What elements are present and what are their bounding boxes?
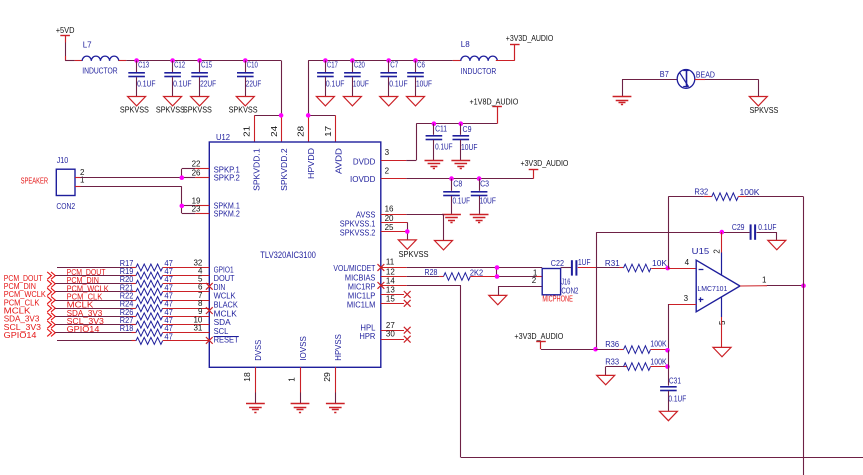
no-connect X row6 bbox=[206, 307, 213, 314]
svg-text:RESET: RESET bbox=[214, 336, 239, 345]
svg-text:5: 5 bbox=[718, 320, 727, 325]
resistor R32 bbox=[668, 197, 670, 268]
svg-text:AVDD: AVDD bbox=[334, 148, 344, 174]
svg-text:MIC1RP: MIC1RP bbox=[348, 283, 376, 292]
RESET overbar bbox=[214, 336, 239, 338]
svg-text:47: 47 bbox=[164, 332, 173, 341]
svg-text:18: 18 bbox=[243, 372, 252, 382]
svg-text:GPIO14: GPIO14 bbox=[67, 324, 100, 334]
power +1V8D_AUDIO bbox=[497, 107, 499, 124]
resistor unlabeled row10 bbox=[57, 340, 132, 342]
port chevron PCM_WCLK bbox=[47, 288, 51, 295]
svg-text:C12: C12 bbox=[174, 61, 185, 70]
svg-text:C11: C11 bbox=[435, 125, 447, 134]
svg-text:0.1UF: 0.1UF bbox=[453, 197, 471, 206]
svg-text:DOUT: DOUT bbox=[214, 274, 235, 283]
svg-text:1: 1 bbox=[762, 276, 767, 285]
svg-text:1: 1 bbox=[288, 377, 297, 382]
svg-text:SDA: SDA bbox=[214, 318, 232, 327]
svg-text:0.1UF: 0.1UF bbox=[758, 223, 776, 232]
capacitor C7 bbox=[386, 58, 391, 63]
svg-text:30: 30 bbox=[386, 329, 395, 338]
svg-text:L8: L8 bbox=[461, 40, 470, 49]
capacitor C8 bbox=[449, 176, 454, 181]
resistor R33 bbox=[606, 366, 624, 368]
ground earth C8 bbox=[442, 214, 461, 216]
pin stub HPVSS bbox=[335, 367, 337, 392]
ground SPKVSS C10 bbox=[236, 97, 254, 106]
svg-text:BEAD: BEAD bbox=[696, 70, 715, 79]
svg-text:R33: R33 bbox=[605, 358, 619, 367]
wire SPKM tee bbox=[181, 187, 183, 214]
resistor R17 bbox=[57, 267, 132, 269]
no-connect X row10 bbox=[206, 337, 213, 344]
junction op-amp V+ C29 bbox=[720, 230, 725, 235]
svg-text:C3: C3 bbox=[480, 180, 489, 189]
svg-text:WCLK: WCLK bbox=[214, 292, 237, 301]
wire 3V3 branch vertical bbox=[596, 232, 598, 349]
svg-text:25: 25 bbox=[385, 223, 394, 232]
junction R31 out bbox=[665, 266, 670, 271]
svg-text:B7: B7 bbox=[660, 70, 669, 79]
pin op-amp 5 bbox=[721, 297, 723, 317]
ground earth IOVSS bbox=[291, 403, 310, 405]
svg-text:29: 29 bbox=[323, 372, 332, 382]
svg-text:SPKVSS: SPKVSS bbox=[156, 105, 185, 114]
wire C22 to R31 bbox=[578, 267, 597, 269]
svg-text:SPKVSS: SPKVSS bbox=[229, 105, 258, 114]
svg-text:+5VD: +5VD bbox=[56, 25, 75, 35]
ground earth DVSS bbox=[246, 403, 265, 405]
port chevron SCL_3V3 bbox=[47, 321, 51, 328]
wire MICDET to mic bbox=[407, 267, 543, 269]
svg-text:DIN: DIN bbox=[214, 283, 226, 292]
svg-text:INDUCTOR: INDUCTOR bbox=[461, 67, 497, 76]
port chevron PCM_DIN bbox=[47, 280, 51, 287]
wire R33 to ground bbox=[605, 367, 607, 376]
ground earth bead left bbox=[613, 96, 632, 98]
wire SPKP tee bbox=[181, 169, 183, 178]
svg-text:2: 2 bbox=[713, 249, 722, 254]
port chevron GPIO14 bbox=[47, 329, 51, 336]
svg-text:U15: U15 bbox=[692, 247, 710, 256]
svg-text:20: 20 bbox=[385, 214, 394, 223]
svg-text:15: 15 bbox=[386, 294, 395, 303]
svg-text:SPKVSS: SPKVSS bbox=[399, 250, 429, 259]
svg-text:CON2: CON2 bbox=[56, 202, 75, 211]
pin op-amp 2 bbox=[721, 232, 723, 252]
wire rail drop to pin 24 bbox=[281, 61, 283, 116]
wire bottom loop bbox=[461, 457, 863, 459]
wire tee to pin 21 bbox=[254, 115, 281, 117]
power +3V3D_AUDIO top bbox=[514, 45, 516, 61]
ground SPKVSS bead bbox=[749, 97, 767, 106]
ground earth HPVSS bbox=[326, 403, 345, 405]
junction micdet bottom bbox=[495, 274, 500, 279]
svg-text:C31: C31 bbox=[669, 376, 682, 385]
svg-text:VOL/MICDET: VOL/MICDET bbox=[333, 264, 375, 273]
svg-text:J10: J10 bbox=[57, 156, 69, 165]
svg-text:MICPHONE: MICPHONE bbox=[542, 294, 573, 303]
wire pin3 to divider bbox=[668, 304, 670, 350]
svg-text:U12: U12 bbox=[216, 133, 231, 142]
svg-text:100K: 100K bbox=[740, 188, 761, 197]
svg-text:10UF: 10UF bbox=[416, 79, 432, 88]
junction right rail at pin 28 bbox=[306, 113, 311, 118]
svg-text:24: 24 bbox=[270, 125, 279, 137]
wire R31 to op-amp bbox=[668, 268, 697, 270]
svg-text:C7: C7 bbox=[390, 61, 398, 70]
svg-text:HPVDD: HPVDD bbox=[306, 148, 316, 179]
wire bead left bbox=[622, 79, 677, 81]
svg-text:26: 26 bbox=[192, 168, 201, 177]
svg-text:22: 22 bbox=[192, 159, 201, 168]
svg-text:4: 4 bbox=[685, 258, 690, 267]
wire feedback vertical bbox=[803, 197, 805, 286]
pin stub IOVSS bbox=[300, 367, 302, 392]
svg-text:3: 3 bbox=[684, 294, 689, 303]
svg-text:DVSS: DVSS bbox=[254, 340, 263, 361]
svg-text:C9: C9 bbox=[463, 125, 472, 134]
capacitor C11 bbox=[432, 121, 437, 126]
no-connect X pin11 bbox=[378, 264, 385, 271]
wire MIC1RP to feedback loop bbox=[407, 285, 461, 287]
svg-text:MICBIAS: MICBIAS bbox=[345, 273, 376, 282]
wire op-amp output bbox=[740, 285, 767, 287]
ground earth C3 bbox=[470, 214, 489, 216]
no-connect X pin13 bbox=[404, 291, 411, 298]
svg-text:LMC7101: LMC7101 bbox=[697, 284, 727, 293]
wire L8 to +3V3D_AUDIO bbox=[496, 60, 515, 62]
svg-text:0.1UF: 0.1UF bbox=[173, 79, 192, 88]
ground op-amp pin5 bbox=[713, 347, 731, 356]
svg-text:R18: R18 bbox=[120, 324, 134, 333]
no-connect X pin14 bbox=[378, 282, 385, 289]
svg-text:SPKVDD.2: SPKVDD.2 bbox=[279, 148, 289, 191]
svg-text:C6: C6 bbox=[417, 61, 425, 70]
ground C6 bbox=[407, 97, 425, 106]
svg-text:21: 21 bbox=[242, 125, 251, 137]
svg-text:SPKVSS.2: SPKVSS.2 bbox=[340, 228, 376, 237]
svg-text:R36: R36 bbox=[605, 340, 619, 349]
svg-text:C22: C22 bbox=[551, 259, 565, 268]
svg-text:C13: C13 bbox=[138, 61, 149, 70]
junction left rail at pin 24 bbox=[279, 113, 284, 118]
wire 3V3 to R36 bbox=[541, 349, 596, 351]
svg-text:SPKVDD.1: SPKVDD.1 bbox=[251, 148, 261, 191]
wire SPKVSS pins to ground bbox=[407, 222, 409, 240]
no-connect X row3 bbox=[206, 283, 213, 290]
svg-text:100K: 100K bbox=[650, 357, 667, 366]
connector J16 MICPHONE bbox=[542, 269, 560, 295]
svg-text:22UF: 22UF bbox=[246, 79, 262, 88]
ground SPKVSS AVSS bbox=[435, 241, 453, 250]
svg-text:3: 3 bbox=[385, 148, 390, 157]
svg-text:INDUCTOR: INDUCTOR bbox=[82, 67, 118, 76]
wire bead right bbox=[695, 79, 705, 81]
svg-text:SCL: SCL bbox=[214, 327, 229, 336]
svg-text:0.1UF: 0.1UF bbox=[435, 143, 453, 152]
junction SPKM bbox=[180, 204, 185, 209]
wire branch top to C29 bbox=[597, 232, 750, 234]
svg-text:1: 1 bbox=[80, 175, 85, 184]
capacitor C6 bbox=[413, 58, 418, 63]
svg-text:MIC1LM: MIC1LM bbox=[347, 300, 376, 309]
svg-text:GPIO14: GPIO14 bbox=[4, 330, 37, 340]
wire R28 to J16 pin1 bbox=[497, 276, 536, 278]
ground C17 bbox=[316, 97, 334, 106]
ground R33 bbox=[597, 375, 615, 384]
svg-text:R32: R32 bbox=[694, 188, 708, 197]
ground C7 bbox=[380, 97, 398, 106]
wire AVSS to ground bbox=[406, 214, 443, 216]
svg-text:IOVSS: IOVSS bbox=[299, 336, 308, 361]
svg-text:SPKM.2: SPKM.2 bbox=[214, 209, 241, 218]
wire op-amp pin3 bbox=[668, 304, 696, 306]
svg-text:HPVSS: HPVSS bbox=[334, 334, 343, 361]
port chevron PCM_DOUT bbox=[47, 272, 51, 279]
svg-text:23: 23 bbox=[192, 205, 201, 214]
wire J10 pin1 bbox=[75, 186, 81, 188]
svg-text:28: 28 bbox=[296, 125, 305, 137]
wire IOVDD to 3V3 rail bbox=[406, 178, 533, 180]
svg-text:12: 12 bbox=[386, 267, 395, 276]
junction R36 left bbox=[593, 347, 598, 352]
svg-text:J16: J16 bbox=[561, 277, 570, 286]
svg-text:SPKVSS: SPKVSS bbox=[750, 106, 779, 115]
svg-text:C15: C15 bbox=[201, 61, 212, 70]
capacitor C12 bbox=[170, 58, 175, 63]
capacitor C17 bbox=[323, 58, 328, 63]
junction R36 right bbox=[665, 348, 670, 353]
svg-text:22UF: 22UF bbox=[200, 79, 216, 88]
svg-text:R28: R28 bbox=[425, 268, 438, 277]
capacitor C10 bbox=[243, 58, 248, 63]
svg-text:IOVDD: IOVDD bbox=[350, 175, 376, 184]
no-connect X pin27 bbox=[404, 327, 411, 334]
svg-text:+1V8D_AUDIO: +1V8D_AUDIO bbox=[470, 96, 519, 106]
ground earth C11 bbox=[425, 160, 444, 162]
svg-text:SPKP.2: SPKP.2 bbox=[214, 173, 241, 182]
ground SPKVSS C12 bbox=[164, 97, 182, 106]
wire DVDD to 1V8 rail bbox=[406, 160, 416, 162]
resistor R28 bbox=[407, 276, 440, 278]
capacitor C9 bbox=[459, 121, 464, 126]
junction R33 right bbox=[665, 364, 670, 369]
svg-text:L7: L7 bbox=[83, 40, 92, 49]
svg-text:+3V3D_AUDIO: +3V3D_AUDIO bbox=[521, 158, 569, 168]
svg-text:10K: 10K bbox=[652, 259, 668, 268]
svg-text:31: 31 bbox=[193, 324, 202, 333]
port chevron MCLK bbox=[47, 305, 51, 312]
wire rail drop to pin 28 bbox=[308, 61, 310, 116]
svg-text:MCLK: MCLK bbox=[214, 309, 238, 318]
junction SPKVSS.2 bbox=[405, 229, 410, 234]
svg-text:0.1UF: 0.1UF bbox=[326, 79, 345, 88]
svg-text:HPR: HPR bbox=[359, 332, 375, 341]
wire right supply rail bbox=[308, 60, 453, 62]
svg-text:SPKVSS: SPKVSS bbox=[120, 105, 149, 114]
ground SPKVSS C13 bbox=[128, 97, 146, 106]
junction SPKP bbox=[180, 175, 185, 180]
capacitor C3 bbox=[477, 176, 482, 181]
svg-text:14: 14 bbox=[386, 277, 395, 286]
svg-text:10UF: 10UF bbox=[461, 143, 478, 152]
pin stub DVSS bbox=[255, 367, 257, 392]
svg-text:C10: C10 bbox=[247, 61, 258, 70]
svg-text:2K2: 2K2 bbox=[470, 269, 484, 278]
svg-text:TLV320AIC3100: TLV320AIC3100 bbox=[260, 250, 316, 260]
resistor R36 bbox=[596, 349, 620, 351]
svg-text:MIC1LP: MIC1LP bbox=[348, 292, 376, 301]
svg-text:1UF: 1UF bbox=[578, 258, 591, 267]
capacitor C20 bbox=[350, 58, 355, 63]
svg-text:SPKVSS: SPKVSS bbox=[183, 105, 212, 114]
svg-text:0.1UF: 0.1UF bbox=[137, 79, 156, 88]
svg-text:DVDD: DVDD bbox=[353, 157, 376, 166]
svg-text:+3V3D_AUDIO: +3V3D_AUDIO bbox=[514, 331, 563, 341]
svg-text:17: 17 bbox=[324, 125, 333, 137]
svg-text:0.1UF: 0.1UF bbox=[389, 79, 408, 88]
wire mic over connector to C22 bbox=[561, 267, 571, 269]
ground SPKVSS C15 bbox=[191, 97, 209, 106]
svg-text:0.1UF: 0.1UF bbox=[668, 395, 686, 404]
ground C29 bbox=[768, 240, 786, 249]
no-connect X pin15 bbox=[404, 300, 411, 307]
svg-text:AVSS: AVSS bbox=[356, 211, 376, 220]
junction micdet top bbox=[495, 265, 500, 270]
ground SPKVSS chip bbox=[398, 240, 416, 249]
svg-text:R31: R31 bbox=[605, 259, 620, 268]
svg-text:SPEAKER: SPEAKER bbox=[21, 177, 49, 186]
wire micdet tie bbox=[496, 268, 498, 277]
svg-text:2: 2 bbox=[532, 276, 537, 285]
svg-text:10UF: 10UF bbox=[480, 197, 496, 206]
ground C31 bbox=[659, 411, 677, 420]
svg-text:2: 2 bbox=[385, 166, 390, 175]
wire +5VD to L7 bbox=[65, 60, 75, 62]
svg-text:13: 13 bbox=[386, 285, 395, 294]
svg-text:100K: 100K bbox=[650, 339, 667, 348]
svg-text:11: 11 bbox=[386, 258, 395, 267]
svg-text:GPIO1: GPIO1 bbox=[214, 265, 234, 274]
no-connect X pin30 bbox=[404, 336, 411, 343]
power +3V3D_AUDIO mid bbox=[533, 170, 535, 179]
ground earth C9 bbox=[451, 160, 470, 162]
wire J10 pin2 to SPKP bbox=[75, 177, 81, 179]
port chevron PCM_CLK bbox=[47, 296, 51, 303]
svg-text:+3V3D_AUDIO: +3V3D_AUDIO bbox=[506, 33, 554, 43]
junction output feedback bbox=[801, 283, 806, 288]
capacitor C15 bbox=[197, 58, 202, 63]
svg-text:C29: C29 bbox=[732, 223, 745, 232]
wire C29 right to ground bbox=[757, 232, 777, 234]
svg-text:16: 16 bbox=[385, 205, 394, 214]
IC U12 TLV320AIC3100 bbox=[209, 142, 380, 367]
port chevron SDA_3V3 bbox=[47, 313, 51, 320]
wire tee to pin 17 bbox=[308, 115, 335, 117]
ground C20 bbox=[343, 97, 361, 106]
svg-text:SPKVSS.1: SPKVSS.1 bbox=[340, 220, 376, 229]
capacitor C13 bbox=[134, 58, 139, 63]
svg-text:BLACK: BLACK bbox=[214, 301, 239, 310]
svg-text:C17: C17 bbox=[327, 61, 338, 70]
ground SPKVSS mic connector bbox=[498, 286, 542, 288]
wire left supply rail SPKVDD bbox=[119, 60, 127, 62]
svg-text:C20: C20 bbox=[354, 61, 365, 70]
svg-text:C8: C8 bbox=[453, 180, 462, 189]
svg-text:10UF: 10UF bbox=[353, 79, 369, 88]
wire divider to C31 bbox=[668, 350, 670, 385]
